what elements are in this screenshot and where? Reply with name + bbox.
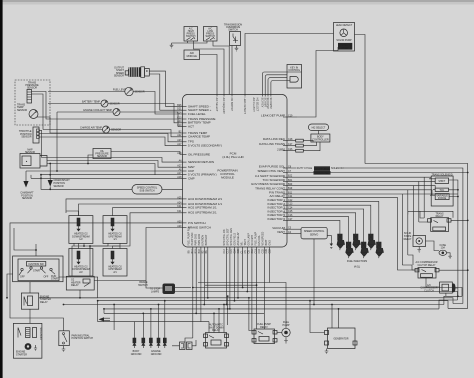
svg-text:HO2 DOWNSTREAM 2/1: HO2 DOWNSTREAM 2/1 xyxy=(188,197,222,201)
PCM bottom pin VEH SPEED xyxy=(261,232,264,254)
svg-text:LAMPS: LAMPS xyxy=(151,290,160,293)
node: sensor bus junctions xyxy=(40,174,42,176)
svg-text:DUTY CYCLE: DUTY CYCLE xyxy=(297,167,313,170)
relay K2: engine starter relay xyxy=(21,293,51,309)
wire: MAP signal xyxy=(47,161,183,168)
sensor B2: trans temp sensor xyxy=(17,104,38,119)
svg-text:SCI RCV: SCI RCV xyxy=(261,98,264,108)
wire: ignition feed up xyxy=(14,228,36,256)
wire: heater relay output to brake area xyxy=(94,280,146,282)
PCM right pin INJECTOR 2 xyxy=(268,202,294,206)
svg-text:SWITCH: SWITCH xyxy=(228,29,238,32)
PCM right pin DATA LINK REC xyxy=(263,137,293,141)
wire: PCM bottom drops left group xyxy=(193,247,208,338)
svg-text:10A: 10A xyxy=(441,246,446,249)
PCM left pin TRANS PRESSURE xyxy=(177,116,215,121)
wire: vacuum to servo xyxy=(287,228,301,230)
connector J1: throttle position sensor xyxy=(19,127,39,143)
wire: main bus y308.9 xyxy=(104,308,439,310)
sensor B6: charge air temp sensor xyxy=(80,126,121,133)
PCM bottom pin SPD CTRL ON xyxy=(223,229,226,253)
PCM bottom pin TACH xyxy=(244,239,247,254)
node: HI2 select stadium xyxy=(308,124,328,131)
svg-text:POSITION SWITCH: POSITION SWITCH xyxy=(72,337,94,340)
PCM bottom pin FUEL PUMP RLY xyxy=(187,226,190,253)
svg-text:SOLENOID: SOLENOID xyxy=(331,167,344,170)
wire: starter relay to engine starter xyxy=(29,309,31,323)
svg-text:PUMP: PUMP xyxy=(283,324,290,327)
ground sensors row: body ground lugs xyxy=(131,338,167,356)
relay K6: solid state relay xyxy=(404,232,426,246)
PCM bottom pin BATTERY xyxy=(205,234,208,253)
svg-text:RELAY: RELAY xyxy=(71,284,79,287)
svg-text:SOLENOID: SOLENOID xyxy=(39,328,42,341)
wire: main bus y291.5 xyxy=(175,292,458,301)
svg-text:P/N SWITCH: P/N SWITCH xyxy=(188,221,206,225)
wire: wrap above trans relay xyxy=(408,211,453,222)
sensor B8: oil pressure sensor xyxy=(93,149,111,159)
svg-text:HI2 SELECT: HI2 SELECT xyxy=(312,126,326,129)
svg-text:DATA LINK REC: DATA LINK REC xyxy=(263,137,286,141)
svg-text:ENGINE COOLANT TEMP: ENGINE COOLANT TEMP xyxy=(83,109,112,112)
PCM left pin HO2 UPSTREAM 2/1 xyxy=(177,210,217,215)
PCM bottom pin MIL xyxy=(240,241,243,254)
wire: TPS return drop xyxy=(40,130,42,157)
switch S2: A/C low pressure switch xyxy=(204,27,218,42)
wire: MAP sensor return xyxy=(42,158,183,163)
wire: relay to clutch loop xyxy=(426,278,458,296)
wire: J1850 xyxy=(287,150,296,152)
relay K1: O2 heater relay xyxy=(66,276,94,290)
svg-text:FORCE: FORCE xyxy=(438,197,447,200)
svg-text:SENSOR: SENSOR xyxy=(111,129,121,132)
wire: PCM bottom drops right group xyxy=(226,247,269,331)
injector group: six fuel injectors xyxy=(337,234,384,269)
wire: CKP to PCM xyxy=(26,170,183,172)
wire: speed ctrl vent run xyxy=(287,172,468,174)
clutch Y1: A/C compressor clutch xyxy=(420,282,455,293)
svg-text:SENSOR RETURN: SENSOR RETURN xyxy=(188,160,214,164)
wire: clutch relay connections xyxy=(402,255,467,270)
ground G6: fuse ground xyxy=(447,253,452,259)
motor M2: engine starter xyxy=(13,323,42,358)
svg-text:SHIFT: SHIFT xyxy=(438,180,445,183)
svg-text:TCC: TCC xyxy=(439,189,444,192)
node: left drop junctions xyxy=(192,287,194,289)
svg-text:5 VOLTS (SECONDARY): 5 VOLTS (SECONDARY) xyxy=(188,144,222,148)
svg-text:MODULE: MODULE xyxy=(187,55,198,58)
wire: engine coolant temp line xyxy=(57,112,183,127)
relay K4: fuel pump relay xyxy=(252,323,277,343)
PCM left pin CKP xyxy=(179,168,195,173)
PCM left pin P/N SWITCH xyxy=(177,220,205,225)
PCM top pin HI2 SELECT (label only) xyxy=(256,98,259,112)
PCM left pin BATTERY TEMP xyxy=(177,120,210,125)
svg-text:HO2 UPSTREAM 2/1: HO2 UPSTREAM 2/1 xyxy=(188,211,217,215)
wire: trans pressure signal to PCM xyxy=(32,92,183,120)
node: leak det pin wire xyxy=(287,116,297,118)
switch S6: park/neutral position switch xyxy=(59,331,93,346)
wire: clutch wrap rails xyxy=(439,296,468,309)
wire: charge air temp line xyxy=(43,130,183,137)
wire: data link receive xyxy=(287,140,296,142)
PCM bottom pin PUMP GND xyxy=(191,232,194,253)
svg-text:IGNITION SW: IGNITION SW xyxy=(29,263,45,266)
relay K3: automatic shut down relay xyxy=(204,324,229,348)
wire: short bus y285.2 xyxy=(205,284,257,286)
PCM left pin CHARGE TEMP xyxy=(177,134,210,139)
svg-text:SPEED CTRL VENT: SPEED CTRL VENT xyxy=(257,169,285,173)
wire: shaft speed - to PCM xyxy=(149,71,182,106)
wire: trans relay control run xyxy=(287,190,435,255)
wire: ASD riser xyxy=(227,296,229,325)
svg-text:SCI XMT: SCI XMT xyxy=(263,98,266,108)
svg-text:SENSOR: SENSOR xyxy=(135,90,145,93)
wire: speed servo drop xyxy=(313,239,315,305)
wire: gov pressure sol run xyxy=(287,186,435,236)
switch S7: brake switch to stop lamps xyxy=(138,281,175,294)
wire: servo ground lead xyxy=(327,235,331,241)
svg-text:CONTROL: CONTROL xyxy=(288,69,300,72)
PCM bottom pin SCI XMIT xyxy=(251,235,254,254)
svg-text:START: START xyxy=(33,270,41,273)
connector J2: inline ground connector xyxy=(172,340,196,350)
PCM bottom pin SPD CTRL SET xyxy=(226,228,229,254)
wire: injector feeds xyxy=(287,201,379,242)
relay K7: A/C compressor clutch relay xyxy=(415,261,439,278)
svg-text:ACT: ACT xyxy=(188,125,194,129)
servo M4: speed control servo xyxy=(301,227,327,239)
svg-text:SOL/W PUMP: SOL/W PUMP xyxy=(336,39,352,42)
node: heater link junctions xyxy=(89,245,91,247)
svg-text:OFF: OFF xyxy=(44,276,49,279)
PCM right pin 3-4 SHIFT SOLENOID xyxy=(255,174,293,178)
wire: ignition run to bus xyxy=(59,277,98,298)
wire: ignition off terminal to left rail xyxy=(7,274,13,298)
wire: leak det pump signal to PCM right pin xyxy=(297,47,338,117)
svg-text:A/C SELECT: A/C SELECT xyxy=(215,98,218,112)
sensor B14: heated O2 upstream 2/1 xyxy=(103,249,127,277)
svg-text:OIL PRESSURE: OIL PRESSURE xyxy=(188,152,210,156)
wire: fuel level line xyxy=(48,92,183,115)
svg-text:CLUTCH RELAY: CLUTCH RELAY xyxy=(417,264,435,267)
svg-text:(4.0L) Plus LHD: (4.0L) Plus LHD xyxy=(222,155,244,159)
module U4: body controller xyxy=(311,134,330,142)
wire: brake switch to PCM xyxy=(146,228,183,289)
PCM top pin SCI RCV xyxy=(261,95,264,108)
wire: A/C switches to ground bus xyxy=(172,41,208,43)
wire: battery temp line xyxy=(48,104,183,123)
PCM top pin SCI XMT xyxy=(263,95,266,108)
PCM top pin LEAK DETECT xyxy=(243,95,246,115)
svg-text:SUB SWITCH: SUB SWITCH xyxy=(139,189,154,192)
PCM left pin HO2 DOWNSTREAM 2/1 xyxy=(177,196,222,201)
PCM bottom pin BATT xyxy=(265,239,268,253)
svg-text:GROUND: GROUND xyxy=(151,353,162,356)
wire: speed control switch to PCM area xyxy=(162,188,183,190)
fuse F1: 10A fuse xyxy=(439,244,447,256)
ground G3: P/N switch ground xyxy=(62,346,66,352)
svg-text:BRAKE SWITCH: BRAKE SWITCH xyxy=(188,225,211,229)
generator G4: generator xyxy=(325,328,358,354)
wire: ground lug risers xyxy=(134,301,164,338)
PCM bottom pin GND xyxy=(268,240,271,254)
PCM left pin 5 VOLTS (SECONDARY) xyxy=(177,143,222,148)
wire: main bus y304.5 xyxy=(64,304,444,306)
svg-text:GND: GND xyxy=(268,240,271,246)
wire: vent to servo xyxy=(287,233,301,235)
node: bus junctions xyxy=(97,300,99,302)
module U3: key-in ignition control box xyxy=(287,65,302,89)
connector J4: data link trans inline xyxy=(296,144,304,147)
PCM right pin TCC SOLENOID xyxy=(262,178,292,182)
svg-text:SERVO: SERVO xyxy=(310,233,318,236)
svg-text:SCI RCV2: SCI RCV2 xyxy=(266,98,269,110)
sensor cluster: trans pressure sensor (dashed enclosure) xyxy=(15,80,50,125)
wire: lower return y321.6 xyxy=(98,301,139,330)
wire: y321.6 extension to ASD xyxy=(139,321,209,323)
wire: starter relay to bus xyxy=(39,297,98,299)
wire: ignition to starter relay xyxy=(29,282,31,293)
wire: HO2 downstream 2/1 to PCM xyxy=(66,199,183,216)
svg-text:MODULE: MODULE xyxy=(221,176,234,180)
wire: HO2 upstream 1/1 to PCM xyxy=(113,208,183,216)
wire: SSR to fuse xyxy=(426,241,440,251)
svg-text:SENSOR: SENSOR xyxy=(110,103,120,106)
wire: brake feed from bus xyxy=(175,287,191,289)
svg-text:C29: C29 xyxy=(268,248,271,253)
svg-text:▲: ▲ xyxy=(25,160,27,163)
svg-text:LEAK DETECT: LEAK DETECT xyxy=(243,98,246,115)
node: riser junctions xyxy=(142,313,144,315)
module U2: air bag module xyxy=(184,50,200,60)
pump M3: fuel pump xyxy=(282,321,290,343)
wire: OD switch to PCM xyxy=(231,46,233,95)
PCM internal label: PCM (4.0L) Plus LHD xyxy=(222,152,244,160)
PCM left pin FUEL LEVEL xyxy=(177,111,206,116)
svg-text:DATA LINK TRANS: DATA LINK TRANS xyxy=(259,142,285,146)
PCM right pin INJECTOR 5 xyxy=(268,213,294,217)
svg-text:FUEL INJECTORS: FUEL INJECTORS xyxy=(347,260,368,263)
op-amp/PCM main box: Powertrain Control Module xyxy=(183,95,288,248)
sensor B9: camshaft position sensor xyxy=(20,171,34,200)
switch S1: A/C high pressure switch xyxy=(184,27,198,42)
PCM right pin INJECTOR 1 xyxy=(268,198,294,202)
svg-text:START: START xyxy=(51,277,59,280)
wire: P/N trans run xyxy=(287,194,458,265)
PCM left pin SENSOR RETURN xyxy=(179,160,214,165)
sensor B1: output shaft speed sensor xyxy=(114,66,149,77)
wire: PCM leak detect top pin to pump box xyxy=(245,34,334,95)
wire: O2 heater relay drop to bus xyxy=(79,290,81,298)
wire: trans temp sensor to PCM xyxy=(37,117,183,133)
PCM right pin GOV PRESS SOLENOID xyxy=(251,182,293,186)
svg-text:RELAY: RELAY xyxy=(40,301,48,304)
PCM top pin A/C REQUEST xyxy=(222,95,225,115)
wire: A/C high press to PCM pin xyxy=(194,41,225,95)
svg-text:SENSOR: SENSOR xyxy=(21,136,31,139)
PCM top pin A/C SELECT xyxy=(215,95,218,112)
wire: A/C relay run xyxy=(287,198,418,270)
wire: 3-4 shift solenoid run xyxy=(287,177,435,218)
PCM right pin J1850 xyxy=(277,147,293,151)
ground G7: servo ground xyxy=(330,241,332,243)
PCM bottom pin GEN LAMP xyxy=(247,233,250,254)
PCM left pin BRAKE SWITCH xyxy=(177,225,211,230)
svg-text:SWITCH: SWITCH xyxy=(138,284,148,287)
wire: oil pressure return drop xyxy=(88,155,93,164)
connector arrow: feed toward fuel pump xyxy=(99,317,105,321)
wire: sensor return lower bus xyxy=(41,175,132,190)
svg-text:LEAK DETECT: LEAK DETECT xyxy=(336,24,353,27)
svg-text:RELAY: RELAY xyxy=(260,326,268,329)
svg-text:OFF: OFF xyxy=(20,276,25,279)
PCM top pin OD SWITCH xyxy=(230,95,233,112)
sensor B3: fuel level sender xyxy=(113,87,145,95)
PCM bottom pin IGNITION xyxy=(201,235,204,254)
wire: P/N switch feed xyxy=(10,223,183,331)
PCM top pin SCI XMT2 xyxy=(269,95,272,110)
wire: data link transmit xyxy=(287,145,296,147)
PCM left pin SHAFT SPEED - xyxy=(177,104,210,109)
PCM bottom pin FUEL PUMP xyxy=(254,232,257,254)
wire: main bus y297.8 xyxy=(39,298,453,304)
sensor B5: engine coolant temp sensor xyxy=(83,109,120,116)
sensor B7: MAP sensor xyxy=(20,149,47,168)
node: ignition feed junction xyxy=(35,249,37,251)
PCM left pin ACT xyxy=(177,124,194,129)
PCM bottom pin GEN FIELD xyxy=(233,233,236,254)
wire: air module to PCM A/C select pin xyxy=(200,55,218,95)
wire: main bus y313.4 xyxy=(104,312,264,314)
svg-text:OD SWITCH: OD SWITCH xyxy=(230,98,233,112)
wire: downstream 2/2 drop to heater relay xyxy=(72,243,79,276)
PCM left pin CMP xyxy=(177,176,194,181)
svg-text:LEAK DET PUMP: LEAK DET PUMP xyxy=(261,114,285,118)
wire: ASD relay feeds xyxy=(209,305,224,333)
PCM right pin DATA LINK TRANS xyxy=(259,142,293,146)
svg-text:SCI XMT2: SCI XMT2 xyxy=(269,98,272,110)
sensor B11: heated O2 downstream 1/2 xyxy=(69,216,93,244)
PCM right pin TRANS RELAY CONT xyxy=(255,186,293,190)
wire: pump box to right vertical feed xyxy=(355,35,366,164)
wire: trans relay to right rail xyxy=(451,219,468,221)
svg-text:GENERATOR: GENERATOR xyxy=(334,338,349,341)
wire: PCM SCI pins nest to key control box xyxy=(262,72,301,95)
ground G1: A/C switch ground xyxy=(170,43,174,48)
svg-text:EVAP PURGE SOL: EVAP PURGE SOL xyxy=(259,165,285,169)
svg-text:SENSOR: SENSOR xyxy=(22,197,32,200)
PCM left pin TPS xyxy=(177,139,194,144)
solenoid assembly: trans solenoid block xyxy=(431,173,453,206)
wire: fuel pump relay feeds xyxy=(249,298,252,331)
wire: CMP line xyxy=(31,175,183,178)
svg-text:EVAP/PURGE: EVAP/PURGE xyxy=(314,168,330,171)
PCM bottom pin IGN COIL xyxy=(258,234,261,253)
node: right drop junctions xyxy=(226,304,228,306)
PCM left pin SHAFT SPEED + xyxy=(177,108,212,113)
wire: upstream boxes interconnect xyxy=(90,243,120,248)
switch S4: speed control sub-switch (stadium) xyxy=(132,185,162,195)
PCM left pin HO2 DOWNSTREAM 1/1 xyxy=(177,201,222,206)
switch S5: ignition switch assembly xyxy=(13,256,63,282)
sensor B10: crankshaft position sensor xyxy=(48,164,71,190)
svg-text:SENSOR: SENSOR xyxy=(17,109,27,112)
PCM bottom pin SPD CTRL RES xyxy=(230,228,233,254)
wire: A/C low press to PCM pin xyxy=(213,41,229,95)
svg-text:FUEL LEVEL: FUEL LEVEL xyxy=(188,112,206,116)
svg-text:A/C CLUTCH: A/C CLUTCH xyxy=(252,98,255,113)
wire: short bus y282.5 to fuel pump feed xyxy=(198,283,286,329)
solenoid L1: duty cycle evap purge (highlighted) xyxy=(297,166,344,175)
wire: MAP 5V primary xyxy=(47,164,155,175)
ground G5: solid state relay ground xyxy=(417,247,421,253)
connector J3: data link rec inline xyxy=(296,139,304,142)
svg-text:A/C REQUEST: A/C REQUEST xyxy=(222,98,225,115)
PCM right pin VENT xyxy=(277,230,292,234)
svg-text:(4.0L): (4.0L) xyxy=(354,266,360,269)
PCM bottom pin PWR GND xyxy=(194,234,197,254)
connector J5: J1850 inline xyxy=(296,149,304,152)
wire: evap purge sol xyxy=(287,168,463,304)
svg-text:SENSOR: SENSOR xyxy=(114,75,124,78)
svg-text:SENSOR: SENSOR xyxy=(97,155,107,158)
svg-text:CONTROLLER: CONTROLLER xyxy=(312,138,329,141)
switch S3: transmission overdrive (OD) switch xyxy=(224,24,242,46)
PCM right pin P/N TRANS xyxy=(269,191,293,195)
wire: oil pressure signal xyxy=(111,152,183,155)
PCM left pin OIL PRESSURE xyxy=(177,152,210,157)
PCM right pin LEAK DET PUMP xyxy=(261,114,293,118)
node: asd junctions xyxy=(213,313,215,315)
svg-text:CLUTCH: CLUTCH xyxy=(424,289,434,292)
wire: shaft speed + to PCM xyxy=(149,74,182,110)
sensor B4: battery temp sensor xyxy=(82,100,120,107)
wire: TPS 5V xyxy=(40,137,183,146)
left black scan border xyxy=(0,0,3,378)
wire: solenoid block right side links xyxy=(449,180,458,296)
node: oil return joins 5V line xyxy=(87,163,89,165)
PCM internal label: POWERTRAIN CONTROL MODULE xyxy=(217,169,237,180)
PCM left pin MAP xyxy=(177,165,194,170)
svg-text:CMP: CMP xyxy=(188,176,195,180)
PCM left pin 5 VOLTS (PRIMARY) xyxy=(177,172,216,177)
svg-text:PUMP: PUMP xyxy=(342,47,349,50)
PCM bottom pin ASD RELAY xyxy=(237,232,240,254)
svg-text:HO2 UPSTREAM 1/1: HO2 UPSTREAM 1/1 xyxy=(188,206,217,210)
wire: main bus y300.7 xyxy=(98,301,448,309)
sensor B12: heated O2 upstream 1/1 xyxy=(103,216,127,244)
wire: top right feed corner xyxy=(365,164,468,309)
wire: relay to fuel pump xyxy=(277,332,282,334)
PCM top pin A/C CLUTCH (label only) xyxy=(252,98,255,113)
PCM left pin HO2 UPSTREAM 1/1 xyxy=(177,205,217,210)
svg-text:STARTER: STARTER xyxy=(16,353,27,356)
PCM right pin INJECTOR 3 xyxy=(268,206,294,210)
wire: generator feeds xyxy=(310,301,339,333)
svg-text:RELAY: RELAY xyxy=(404,238,412,241)
PCM right pin INJECTOR 4 xyxy=(268,209,294,213)
PCM right pin SPEED CTRL VENT xyxy=(257,169,291,173)
PCM right pin EVAP PURGE SOL xyxy=(259,165,292,169)
wire: coolant line feed down to crank bus xyxy=(56,112,58,171)
sensor B13: heated O2 downstream 2/2 xyxy=(69,249,93,277)
wire: main bus y287.5 xyxy=(193,288,462,297)
node: feed junctions xyxy=(467,172,469,174)
ground G2: OD switch ground xyxy=(235,46,239,51)
svg-text:GROUND: GROUND xyxy=(131,353,142,356)
wire: stadium to body controller xyxy=(318,131,320,135)
